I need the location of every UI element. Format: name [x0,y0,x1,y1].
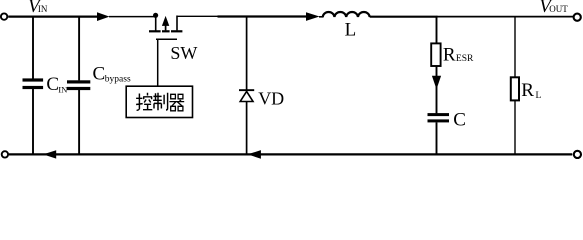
transistor SW mosfet [149,16,182,40]
wire vd junction to arrow thick [218,15,307,17]
inductor L [319,16,324,18]
arrow freewheel current [248,150,261,159]
node switch-source dot [153,13,158,18]
terminal input bottom [2,151,8,157]
arrow inductor current [306,12,320,21]
wire bottom rail [9,153,572,155]
wire resr to c with arrow [436,66,438,113]
wire rl to bottom [514,100,516,154]
svg-text:SW: SW [170,43,197,63]
wire cbypass branch top [78,17,80,81]
svg-text:ESR: ESR [456,54,474,64]
wire c to bottom [436,122,438,154]
svg-text:IN: IN [58,84,68,94]
terminal output top [574,14,581,21]
terminal input top [1,13,7,19]
terminal output bottom [574,151,581,158]
wire cbypass branch bottom [78,90,80,154]
wire vd branch bottom [246,102,248,154]
capacitor CIN [23,78,44,89]
svg-text:C: C [93,64,106,85]
wire top rail left thick [8,16,98,18]
wire arrow to mosfet dot [109,16,156,18]
wire rl branch top [514,17,516,78]
svg-text:bypass: bypass [105,74,131,84]
svg-text:VD: VD [258,89,284,109]
label controller text zhi [153,93,168,110]
arrow cap current down [432,76,441,90]
svg-text:C: C [453,110,466,131]
svg-text:L: L [536,91,542,101]
svg-text:C: C [46,74,59,95]
resistor RL [511,77,519,100]
resistor RESR [431,43,440,66]
controller box [126,86,192,117]
wire cin branch top [32,17,34,79]
capacitor Cbypass [67,80,90,90]
svg-text:OUT: OUT [549,4,568,14]
arrow return current left [43,150,56,158]
capacitor C [428,113,450,122]
wire resr branch top [436,17,438,44]
label controller text kong [136,93,152,110]
wire resr junction to output [437,16,575,18]
svg-text:L: L [345,20,357,41]
diode VD [239,89,254,101]
wire drain to vd [177,15,218,17]
svg-text:R: R [521,80,534,101]
wire vd branch top [246,17,248,90]
wire cin branch bottom [32,89,34,154]
label controller text qi [169,94,184,111]
wire inductor to resr junction thick [370,16,438,18]
svg-text:IN: IN [38,4,48,14]
wire gate lead [157,39,159,86]
arrow current in [97,12,110,21]
svg-text:R: R [443,45,456,66]
